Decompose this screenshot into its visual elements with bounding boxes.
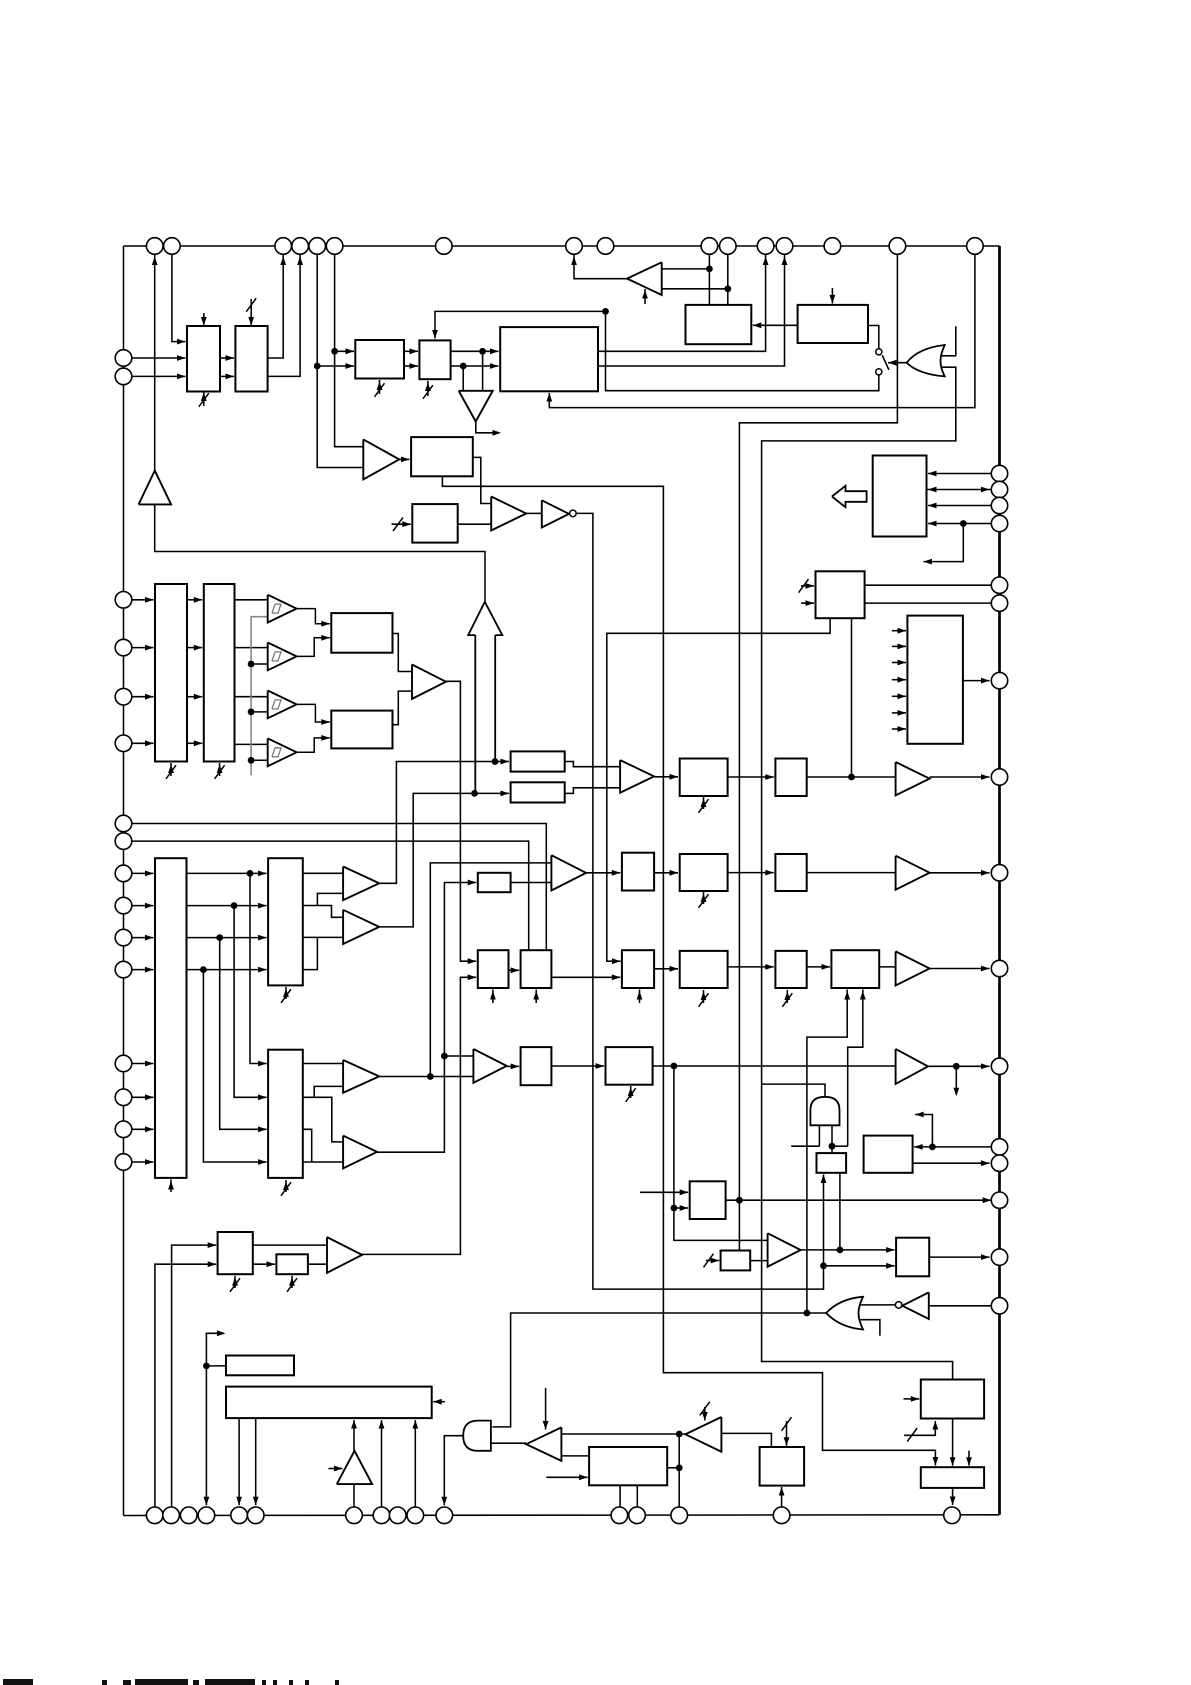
wire T4 to B13	[297, 738, 330, 752]
wire V5 tap down to bus	[678, 1434, 680, 1507]
wire arrow leg left	[474, 635, 476, 793]
pin R13	[991, 1155, 1007, 1171]
wire B3 bottom clock stub	[379, 380, 381, 394]
wire comp in2	[662, 288, 728, 290]
wire B49 leg a	[619, 1485, 621, 1507]
wire inverted clock distribution	[576, 513, 823, 1289]
pin L1	[115, 350, 132, 367]
wire B15 bottom leg to W3 row	[851, 618, 853, 777]
pin T6	[326, 238, 343, 255]
wire V5 top clock stub	[704, 1407, 706, 1421]
wire r2 riser to Y3	[314, 1086, 343, 1097]
block B21	[511, 782, 565, 802]
pin R12	[991, 1139, 1007, 1155]
junction dot	[479, 348, 486, 355]
pin R3	[991, 497, 1007, 513]
wire bottom bus	[124, 1514, 1000, 1517]
wire B33 to B34	[807, 966, 830, 968]
footer mark 6	[205, 1679, 255, 1685]
block B17	[155, 858, 187, 1178]
wire B5 out2 to pin13	[598, 255, 785, 367]
junction dot	[724, 285, 731, 292]
buffer Z2	[551, 855, 586, 890]
wire T3 to B13	[297, 704, 330, 722]
buffer W5	[896, 951, 930, 985]
wire B48 legs a	[238, 1418, 240, 1505]
footer mark 1	[3, 1679, 33, 1685]
pin L9	[115, 865, 132, 882]
buffer Y3	[343, 1060, 379, 1093]
block B46	[896, 1238, 929, 1277]
block B30	[680, 854, 728, 891]
wire B48 legs b	[255, 1418, 257, 1505]
amplifier A5 (up)	[337, 1451, 372, 1484]
wire B9 to B8	[753, 324, 798, 326]
wire stub to B43 a	[640, 1191, 688, 1193]
pin B11	[436, 1507, 453, 1524]
wire B16 out to pin R7	[963, 680, 990, 682]
block B5	[500, 327, 598, 391]
wire X2 out to B22	[446, 681, 476, 961]
wire B45 out to pin R13	[913, 1162, 990, 1164]
wire W5 to pin R10	[930, 968, 990, 970]
pin L3	[115, 592, 132, 609]
wire Y5 out up to B22	[362, 977, 476, 1254]
wire B26 clock stub	[639, 990, 641, 1004]
wire B18 r4 join	[303, 937, 318, 969]
buffer A2 (to B6)	[363, 439, 399, 479]
wire pin to B10 row1	[132, 599, 154, 601]
block B37	[218, 1232, 253, 1274]
wire B1 to B2 b	[220, 375, 234, 377]
pin R4	[991, 515, 1007, 531]
wire arrow leg right	[494, 635, 496, 761]
wire pin5 to B3 in b	[317, 365, 354, 367]
wire B48 right stub	[433, 1401, 445, 1403]
wire B4 bottom clock stub	[427, 381, 429, 396]
block B7	[412, 504, 457, 542]
block B28	[680, 759, 728, 797]
buffer X1 (up)	[139, 471, 172, 505]
wire B25 to B30	[654, 872, 678, 874]
buffer X2	[412, 665, 446, 699]
wire left pin to B17 row8	[132, 1161, 154, 1163]
buffer V3	[768, 1233, 801, 1267]
wire B33 clock stub	[786, 990, 788, 1003]
wire comp in1	[662, 268, 710, 270]
junction dot	[671, 1205, 678, 1212]
wire B38 to Y5 lower	[308, 1263, 327, 1265]
block B40	[521, 1047, 552, 1085]
pin R1	[991, 465, 1007, 481]
wire B52 left stub	[904, 1398, 920, 1400]
wire B40 to B42	[551, 1065, 604, 1067]
pin T15	[889, 238, 906, 255]
pin L11	[115, 929, 132, 946]
pin R9	[991, 865, 1007, 881]
pin R14	[991, 1192, 1007, 1208]
block B1	[187, 326, 220, 392]
pin R15	[991, 1249, 1007, 1265]
wire pin6 branch	[335, 255, 364, 447]
wire pin R4 to B14	[928, 523, 991, 525]
wire pin R1 to B14	[928, 473, 991, 475]
schmitt buffer T2	[268, 643, 297, 671]
wire Z1 out to B28	[654, 776, 678, 778]
block B22	[478, 950, 509, 988]
wire bus pin to B37 upper	[172, 1245, 217, 1507]
wire B18 bottom clock stub	[285, 987, 287, 999]
wire left pin to B17 row6	[132, 1096, 154, 1098]
wire B50 top stub	[968, 1451, 970, 1466]
junction dot	[837, 1247, 844, 1254]
pin T14	[824, 238, 841, 255]
pin R16	[991, 1298, 1007, 1314]
buffer Y1	[343, 867, 379, 901]
wire V1 to B40	[507, 1065, 520, 1067]
pin B9	[389, 1507, 406, 1524]
wire B7 clock stub	[392, 523, 411, 525]
wire B50 bottom to pin	[952, 1488, 954, 1505]
wire B53 top clock stub	[786, 1421, 788, 1446]
wire G3 in2 stub	[860, 1320, 880, 1336]
buffer A3	[491, 497, 526, 531]
switch lever	[882, 355, 889, 370]
pin T2	[164, 238, 181, 255]
pin L8	[115, 833, 132, 850]
wire B49 input stub	[546, 1476, 587, 1478]
block B49	[589, 1447, 667, 1485]
wire left pin to B17 row1	[132, 872, 154, 874]
wire B22 clock stub	[492, 990, 494, 1004]
switch contact lower	[876, 369, 882, 375]
wire pin up to B48 c	[381, 1420, 383, 1507]
wire pin8 to comparator	[574, 255, 627, 279]
wire tap r1 down to B19	[250, 873, 267, 1063]
pin L2	[115, 368, 132, 385]
block B9	[798, 305, 868, 343]
pin T11	[720, 238, 737, 255]
wire B49 leg b	[636, 1485, 638, 1507]
block B19	[268, 1050, 303, 1178]
wire B16 input stub 6	[892, 712, 906, 714]
wire G2 leg a tail	[791, 1145, 819, 1147]
wire B52 clock stub elbow	[904, 1421, 935, 1435]
wire left pin to B17 row2	[132, 905, 154, 907]
junction dot	[848, 774, 855, 781]
wire B20 to Z1 upper	[565, 762, 620, 767]
junction dot	[953, 1063, 960, 1070]
junction dot	[829, 1143, 836, 1150]
junction dot	[216, 934, 223, 941]
wire tap to monitor tri b	[462, 366, 464, 391]
wire tap r4 down to B19	[203, 970, 266, 1162]
buffer W3	[896, 762, 930, 795]
wire B10 to B11 row2	[187, 647, 202, 649]
wire B11 bottom clock stub	[219, 763, 221, 776]
block B31	[775, 854, 806, 891]
block B2	[235, 326, 267, 392]
block B25	[622, 853, 654, 891]
wire dot to B47	[206, 1365, 226, 1367]
block B42	[606, 1047, 653, 1085]
wire V2 top stub	[545, 1388, 547, 1430]
block B44	[817, 1153, 847, 1173]
wire B37 to B38	[253, 1263, 275, 1265]
wire B18 r2 step	[303, 906, 343, 918]
wire B17 out r1 to B18	[187, 872, 267, 874]
wire leg b link right	[832, 1145, 848, 1147]
wire net 673 to B43 b	[674, 1207, 688, 1209]
wire B5 out1 to pin12	[598, 255, 766, 352]
wire B9 top stub	[831, 288, 833, 304]
junction dot	[804, 1310, 811, 1317]
wire pin R3 to B14	[928, 505, 991, 507]
wire B49 out tee	[667, 1467, 679, 1469]
wire ref to T2	[251, 663, 268, 665]
pin R6	[991, 595, 1007, 611]
wire G1 in1 stub	[942, 326, 956, 356]
wire B43 out to pin R14	[726, 1199, 992, 1201]
wire G2 out up-left	[762, 1084, 825, 1097]
wire B10 to B11 row1	[187, 599, 202, 601]
wire left pin row to B23 top a	[132, 824, 547, 951]
wire B45 branch free arrow	[915, 1115, 932, 1147]
wire B52 to B50	[952, 1419, 954, 1466]
buffer W6	[896, 1049, 928, 1084]
wire B34 to W5	[879, 966, 895, 968]
block B18	[268, 858, 303, 985]
wire pin R12 to B45	[914, 1146, 991, 1148]
junction dot	[460, 363, 467, 370]
wire G1 in2 long net	[762, 367, 956, 1378]
wire B16 input stub 7	[892, 728, 906, 730]
wire B28 clock stub	[703, 797, 705, 809]
wire B4 to B5 a	[451, 350, 499, 352]
wire dot to B46 b	[824, 1265, 895, 1267]
wire B13 to X2 lower	[393, 691, 413, 725]
inverter A4 bubble	[570, 510, 577, 517]
and gate G2 (up)	[810, 1097, 839, 1126]
footer marks 7	[262, 1680, 266, 1685]
block B29	[775, 759, 806, 797]
wire pin to B10 row3	[132, 696, 154, 698]
pin T10	[701, 238, 718, 255]
wire B17 out r4 to B18	[187, 969, 267, 971]
wire B1 to B2 a	[220, 357, 234, 359]
block B45	[864, 1136, 913, 1173]
block B6	[411, 437, 473, 476]
wire B53 top to V5 input	[721, 1433, 771, 1447]
wire B14 to pin R2	[927, 489, 992, 491]
wire Y4 line riser	[377, 883, 476, 1153]
wire B30 clock stub	[703, 892, 705, 904]
wire bus pin to B37 lower	[155, 1264, 216, 1507]
wire V3 out to B46 a	[801, 1249, 895, 1251]
pin B8	[373, 1507, 390, 1524]
block B12	[331, 613, 392, 653]
wire B30 to B31	[728, 872, 774, 874]
wire R4 branch free arrow	[924, 524, 964, 562]
block B52	[921, 1380, 984, 1419]
pin L4	[115, 639, 132, 656]
wire B23 clock stub	[535, 990, 537, 1004]
wire G2 leg b	[831, 1125, 833, 1153]
junction dot	[248, 661, 255, 668]
wire amp base to pin	[353, 1484, 355, 1507]
monitor buffer (down)	[459, 391, 493, 422]
wire B11 to T2	[235, 647, 268, 649]
wire B3 to B4 b	[404, 365, 418, 367]
wire B51 clock stub	[706, 1260, 719, 1262]
pin B15	[773, 1507, 790, 1524]
pin B14	[671, 1507, 688, 1524]
wire pin to B10 row4	[132, 742, 154, 744]
wire B37 clock stub	[234, 1276, 236, 1288]
buffer Y5	[327, 1237, 362, 1273]
wire B4 to B5 b	[451, 365, 499, 367]
block B3	[355, 340, 404, 379]
bus arrow (hollow, left) at B14	[832, 486, 867, 507]
block B34	[831, 950, 879, 988]
wire B15 out1 to pin R5	[865, 584, 992, 586]
inverter V2 (left)	[526, 1427, 561, 1461]
inverter A4	[542, 500, 569, 527]
wire B10 bottom clock stub	[170, 763, 172, 776]
wire free elbow arrow	[206, 1333, 224, 1505]
pin R7	[991, 672, 1007, 688]
schmitt buffer T4	[268, 738, 297, 766]
wire B24 to Z2 lower	[511, 882, 552, 884]
pin B1	[146, 1507, 163, 1524]
wire B19 bottom clock stub	[285, 1180, 287, 1192]
wire Y3 line to V1	[379, 1076, 473, 1078]
wire Y1 up to B20 row	[379, 762, 509, 884]
wire B2 top clock stub	[250, 299, 252, 328]
wire B17 out r3 to B18	[187, 937, 267, 939]
pin T1	[146, 238, 163, 255]
junction dot on clock drop	[820, 1262, 827, 1269]
pin T12	[757, 238, 774, 255]
junction dot	[706, 266, 713, 273]
block B50	[921, 1467, 984, 1488]
pin T16	[967, 238, 984, 255]
wire right border bus	[998, 246, 1001, 1515]
block B47	[226, 1356, 294, 1376]
wire B6 bottom W1 long	[442, 476, 935, 1465]
wire A2 out to B6	[399, 458, 409, 460]
wire B29 to W3	[807, 776, 896, 778]
wire ref to T3	[251, 711, 268, 713]
junction dot	[676, 1431, 683, 1438]
wire B49 to V2	[561, 1455, 589, 1457]
junction dot	[929, 1144, 936, 1151]
block B20	[511, 751, 565, 771]
wire Z2 to B25	[586, 872, 620, 874]
wire B21 to Z1 lower	[565, 788, 620, 794]
wire B51 out to V3	[750, 1260, 767, 1262]
buffer Y2	[343, 910, 379, 944]
wire left pin to B17 row4	[132, 969, 154, 971]
junction dot	[248, 709, 255, 716]
wire ref to T4	[251, 759, 268, 761]
wire B28 to B29	[728, 776, 774, 778]
junction dot	[314, 363, 321, 370]
junction dot	[736, 1197, 743, 1204]
wire return to B5 bottom	[549, 255, 975, 408]
pin B2	[163, 1507, 180, 1524]
wire B26 to B32	[654, 968, 678, 970]
pin T3	[275, 238, 292, 255]
wire B15 input stub	[801, 602, 814, 604]
wire Y3 branch to Z2 upper	[430, 863, 551, 1077]
wire B32 to B33	[728, 966, 774, 968]
wire pin9 to switch low	[606, 311, 879, 390]
pin B4	[198, 1507, 215, 1524]
wire tap to monitor tri a	[482, 351, 484, 391]
schmitt buffer T1	[268, 595, 297, 623]
pin B13	[629, 1507, 646, 1524]
wire B10 to B11 row4	[187, 742, 202, 744]
wire tap r3 down to B19	[220, 938, 267, 1130]
wire B19 r3 join	[303, 1129, 312, 1162]
wire B37 to Y5 upper	[253, 1244, 327, 1246]
wire W6 to pin R11	[928, 1065, 990, 1067]
wire B17 out r2 to B18	[187, 905, 267, 907]
wire B15 out2 to pin R6	[865, 602, 992, 604]
wire B16 input stub 1	[892, 630, 906, 632]
junction dot	[676, 1464, 683, 1471]
or gate G1 (left)	[907, 345, 945, 376]
junction dot	[602, 308, 609, 315]
wire B31 to W4	[807, 872, 896, 874]
pin L15	[115, 1121, 132, 1138]
wire left pin to B17 row5	[132, 1063, 154, 1065]
block B43	[690, 1181, 726, 1219]
wire B10 to B11 row3	[187, 696, 202, 698]
wire B17 bottom stub	[170, 1180, 172, 1193]
wire B19 r1 to Y3	[303, 1063, 343, 1065]
wire pin to B10 row2	[132, 647, 154, 649]
block B14	[873, 456, 927, 537]
hysteresis glyph	[272, 652, 281, 661]
wire B19 r2 step	[303, 1097, 343, 1142]
pin L16	[115, 1154, 132, 1171]
junction dot	[248, 757, 255, 764]
wire pin R16 to V4	[929, 1305, 991, 1307]
wire pin6 to B3 in a	[335, 350, 354, 352]
junction dot	[471, 790, 478, 797]
pin B6	[247, 1507, 264, 1524]
block B26	[622, 950, 654, 988]
block B10	[155, 584, 187, 762]
switch contact upper	[876, 349, 882, 355]
junction dot	[960, 520, 967, 527]
wire pin2 to B1 input a	[172, 255, 186, 342]
schmitt buffer T3	[268, 691, 297, 719]
wire B1 bottom clock stub	[203, 390, 205, 406]
wire G4 out to bus pin	[444, 1436, 463, 1506]
junction dot	[247, 870, 254, 877]
pin R8	[991, 769, 1007, 785]
pin L7	[115, 815, 132, 832]
wire G2 leg a	[818, 1125, 820, 1146]
wire A3 to inverter	[526, 512, 542, 514]
wire pin15 elbow long	[739, 255, 897, 1250]
wire B11 to T1	[235, 599, 268, 601]
wire Y4 branch to V1 upper	[444, 1055, 473, 1057]
block B24	[478, 873, 511, 892]
